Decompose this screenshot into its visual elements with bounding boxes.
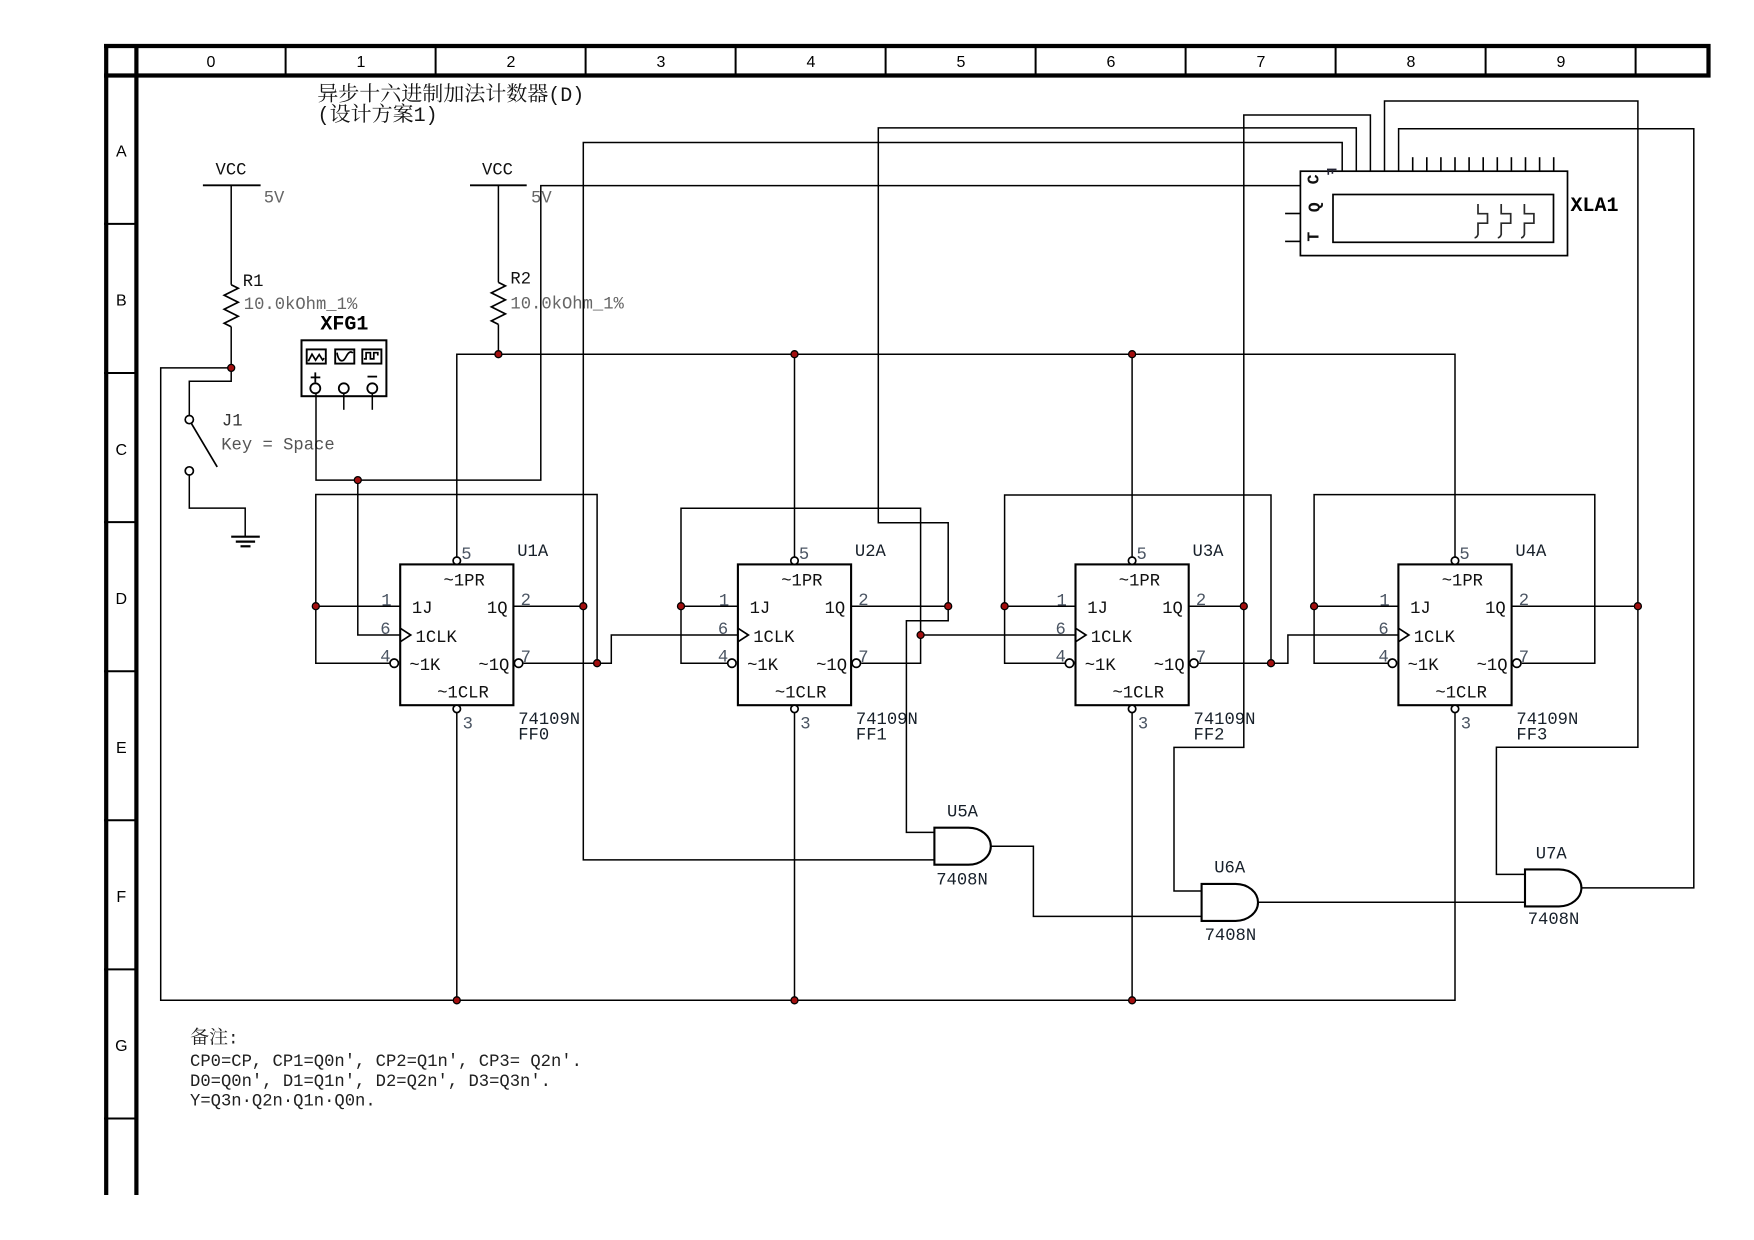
- U4A pin 4 label: [1378, 649, 1388, 668]
- svg-text:A: A: [116, 144, 127, 161]
- title text: [318, 83, 585, 128]
- wire Y output U7A to XLA1: [1399, 129, 1694, 888]
- junction Q3: [1634, 603, 1641, 610]
- svg-text:~1CLR: ~1CLR: [775, 685, 827, 704]
- svg-text:C: C: [1305, 174, 1324, 184]
- U2A part label 74109N: [856, 711, 918, 730]
- svg-text:D0=Q0n', D1=Q1n', D2=Q2n', D3=: D0=Q0n', D1=Q1n', D2=Q2n', D3=Q3n'.: [190, 1073, 551, 1092]
- svg-text:~1CLR: ~1CLR: [1435, 685, 1487, 704]
- svg-text:~1Q: ~1Q: [1477, 657, 1508, 676]
- svg-text:5: 5: [799, 546, 809, 565]
- U1A part label 74109N: [518, 711, 580, 730]
- U3A pin 2 label: [1196, 592, 1206, 611]
- resistor R2: [491, 271, 531, 355]
- U3A pin 1 label: [1057, 592, 1067, 611]
- and-gate U6A 7408N: [1202, 884, 1258, 921]
- junction CLR rail at U2A: [791, 997, 798, 1004]
- svg-text:~1PR: ~1PR: [781, 573, 822, 592]
- svg-text:10.0kOhm_1%: 10.0kOhm_1%: [510, 296, 624, 315]
- J1 key label: [221, 436, 334, 455]
- svg-text:9: 9: [1557, 54, 1566, 71]
- svg-text:5: 5: [1459, 546, 1469, 565]
- svg-text:3: 3: [1461, 716, 1471, 735]
- wire Q3n net U4A feedback: [1314, 495, 1595, 664]
- svg-text:FF1: FF1: [856, 727, 887, 746]
- svg-text:1CLK: 1CLK: [416, 629, 458, 648]
- svg-text:1): 1): [414, 105, 438, 128]
- svg-text:~1PR: ~1PR: [1119, 573, 1160, 592]
- svg-text:U3A: U3A: [1193, 543, 1225, 562]
- svg-text:7408N: 7408N: [936, 872, 988, 891]
- svg-text:B: B: [116, 293, 127, 310]
- svg-text:2: 2: [507, 54, 516, 71]
- wire U5A output to U6A: [991, 846, 1202, 916]
- svg-text:FF0: FF0: [518, 727, 549, 746]
- svg-text:3: 3: [800, 716, 810, 735]
- svg-text:U7A: U7A: [1536, 845, 1568, 864]
- svg-text:~1K: ~1K: [409, 657, 441, 676]
- U1A pin 2 label: [521, 592, 531, 611]
- ground: [231, 537, 260, 547]
- svg-text:~1K: ~1K: [1085, 657, 1117, 676]
- U4A pin 1 label: [1379, 592, 1389, 611]
- svg-text:7: 7: [1257, 54, 1266, 71]
- U1A pin 3 label: [463, 716, 473, 735]
- U4A pin 2 label: [1519, 592, 1529, 611]
- VCC2 value 5V: [531, 190, 552, 209]
- U4A ref label: [1515, 543, 1547, 562]
- U2A instance label FF1: [856, 727, 887, 746]
- U5A part label 7408N: [936, 872, 988, 891]
- svg-text:1Q: 1Q: [825, 600, 846, 619]
- junction Q2: [1240, 603, 1247, 610]
- U6A part label 7408N: [1205, 927, 1257, 946]
- svg-text:2: 2: [858, 592, 868, 611]
- svg-text:~1K: ~1K: [1408, 657, 1440, 676]
- svg-text:1: 1: [381, 592, 391, 611]
- svg-text:2: 2: [1519, 592, 1529, 611]
- U6A ref label: [1214, 859, 1246, 878]
- svg-text:VCC: VCC: [482, 162, 513, 181]
- svg-text:~1CLR: ~1CLR: [1113, 685, 1165, 704]
- power VCC2: [470, 162, 527, 283]
- svg-text:5: 5: [1137, 546, 1147, 565]
- wire Q1n net U2A feedback: [681, 508, 1076, 663]
- U4A pin 3 label: [1461, 716, 1471, 735]
- svg-text:10.0kOhm_1%: 10.0kOhm_1%: [244, 296, 358, 315]
- svg-text:U4A: U4A: [1515, 543, 1547, 562]
- junction CLR at R1: [228, 364, 235, 371]
- U4A pin 5 label: [1459, 546, 1469, 565]
- svg-text:4: 4: [718, 649, 728, 668]
- svg-text:3: 3: [463, 716, 473, 735]
- svg-text:7: 7: [521, 649, 531, 668]
- power VCC1: [203, 162, 261, 285]
- notes text: [190, 1028, 582, 1112]
- svg-text:1J: 1J: [1410, 600, 1431, 619]
- svg-text:2: 2: [1196, 592, 1206, 611]
- svg-text:7: 7: [858, 649, 868, 668]
- junction Q0n at U1A feedback: [594, 660, 601, 667]
- U1A ref label: [517, 543, 549, 562]
- wire CP clock net from XFG1: [316, 186, 1300, 635]
- svg-text:(D): (D): [548, 85, 584, 108]
- svg-text:7408N: 7408N: [1205, 927, 1257, 946]
- U4A pin 7 label: [1519, 649, 1529, 668]
- U2A pin 4 label: [718, 649, 728, 668]
- svg-text:5V: 5V: [531, 190, 552, 209]
- U4A part label 74109N: [1516, 711, 1578, 730]
- svg-text:~1K: ~1K: [747, 657, 779, 676]
- U4A pin 6 label: [1378, 621, 1388, 640]
- U2A pin 2 label: [858, 592, 868, 611]
- and-gate U5A 7408N: [934, 828, 990, 865]
- svg-text:~1PR: ~1PR: [1442, 573, 1483, 592]
- svg-text:D: D: [116, 591, 128, 608]
- wire PR preset rail: [457, 354, 1455, 557]
- svg-text:CP0=CP, CP1=Q0n', CP2=Q1n', CP: CP0=CP, CP1=Q0n', CP2=Q1n', CP3= Q2n'.: [190, 1053, 582, 1072]
- svg-text:G: G: [115, 1038, 127, 1055]
- svg-text:(: (: [318, 105, 330, 128]
- svg-text:7: 7: [1519, 649, 1529, 668]
- VCC1 value 5V: [264, 190, 285, 209]
- svg-text:3: 3: [1138, 716, 1148, 735]
- wire switch to ground: [189, 475, 245, 537]
- U7A ref label: [1536, 845, 1568, 864]
- svg-text:VCC: VCC: [216, 162, 247, 181]
- svg-text:~1Q: ~1Q: [816, 657, 847, 676]
- junction PR rail at U2A: [791, 351, 798, 358]
- svg-text:1: 1: [357, 54, 366, 71]
- svg-text:7: 7: [1196, 649, 1206, 668]
- svg-text:1Q: 1Q: [1485, 600, 1506, 619]
- J1 ref label: [222, 413, 243, 432]
- junction PR rail at R2: [495, 351, 502, 358]
- junction CLR rail at U3A: [1129, 997, 1136, 1004]
- junction Q2n at U3A feedback: [1268, 660, 1275, 667]
- svg-text:6: 6: [380, 621, 390, 640]
- svg-text:Q: Q: [1306, 202, 1325, 212]
- wire Q0n net U1A feedback: [316, 495, 738, 664]
- svg-text:R1: R1: [243, 273, 264, 292]
- svg-text:~1Q: ~1Q: [1154, 657, 1185, 676]
- U3A pin 5 label: [1137, 546, 1147, 565]
- svg-text:2: 2: [521, 592, 531, 611]
- svg-text:~1CLR: ~1CLR: [437, 685, 489, 704]
- svg-text:1Q: 1Q: [487, 600, 508, 619]
- U7A part label 7408N: [1528, 911, 1580, 930]
- svg-text:U2A: U2A: [855, 543, 887, 562]
- junction Q1n clock tap to U3A: [917, 632, 924, 639]
- U3A pin 3 label: [1138, 716, 1148, 735]
- svg-text::: :: [228, 1031, 238, 1050]
- U5A ref label: [947, 804, 979, 823]
- svg-text:~1PR: ~1PR: [444, 573, 485, 592]
- svg-text:1J: 1J: [750, 600, 771, 619]
- svg-text:3: 3: [657, 54, 666, 71]
- jk flip-flop U2A 74109N: [728, 557, 861, 713]
- svg-text:~1Q: ~1Q: [478, 657, 509, 676]
- jk flip-flop U4A 74109N: [1388, 557, 1521, 713]
- svg-text:F: F: [116, 889, 126, 906]
- svg-text:4: 4: [1378, 649, 1388, 668]
- U1A pin 1 label: [381, 592, 391, 611]
- U2A ref label: [855, 543, 887, 562]
- svg-text:U1A: U1A: [517, 543, 549, 562]
- svg-text:4: 4: [380, 649, 390, 668]
- U3A pin 4 label: [1056, 649, 1066, 668]
- junction CP at CLK branch: [354, 477, 361, 484]
- U2A pin 3 label: [800, 716, 810, 735]
- wire Q1 net: [851, 128, 1356, 833]
- svg-text:1CLK: 1CLK: [1091, 629, 1133, 648]
- U3A pin 7 label: [1196, 649, 1206, 668]
- svg-text:Key = Space: Key = Space: [221, 436, 334, 455]
- wire Q2 net: [1174, 115, 1370, 891]
- svg-text:4: 4: [1056, 649, 1066, 668]
- junction Q0: [580, 603, 587, 610]
- svg-text:C: C: [116, 442, 128, 459]
- svg-text:1: 1: [719, 592, 729, 611]
- junction Q1: [945, 603, 952, 610]
- jk flip-flop U3A 74109N: [1065, 557, 1198, 713]
- function generator XFG1: [302, 340, 387, 410]
- svg-text:U5A: U5A: [947, 804, 979, 823]
- U3A ref label: [1193, 543, 1225, 562]
- svg-text:1CLK: 1CLK: [753, 629, 795, 648]
- svg-text:FF2: FF2: [1194, 727, 1225, 746]
- wire U6A output to U7A: [1258, 901, 1525, 903]
- svg-text:6: 6: [1107, 54, 1116, 71]
- svg-text:R2: R2: [510, 271, 531, 290]
- U1A pin 4 label: [380, 649, 390, 668]
- svg-text:U6A: U6A: [1214, 859, 1246, 878]
- U1A pin 5 label: [461, 546, 471, 565]
- wire CLR clear rail: [161, 368, 1455, 1000]
- svg-text:Y=Q3n·Q2n·Q1n·Q0n.: Y=Q3n·Q2n·Q1n·Q0n.: [190, 1093, 376, 1112]
- svg-text:T: T: [1305, 232, 1324, 242]
- svg-text:6: 6: [718, 621, 728, 640]
- svg-text:XLA1: XLA1: [1571, 195, 1619, 218]
- wire Q2n net U3A feedback: [1005, 495, 1399, 663]
- svg-text:8: 8: [1407, 54, 1416, 71]
- U3A instance label FF2: [1194, 727, 1225, 746]
- svg-text:1: 1: [1057, 592, 1067, 611]
- svg-text:4: 4: [807, 54, 816, 71]
- junction Q3n at U4A J input: [1311, 603, 1318, 610]
- svg-text:5: 5: [461, 546, 471, 565]
- XFG1 ref label: [320, 314, 368, 337]
- svg-text:6: 6: [1378, 621, 1388, 640]
- resistor R1: [224, 273, 263, 368]
- and-gate U7A 7408N: [1525, 869, 1581, 906]
- U2A pin 6 label: [718, 621, 728, 640]
- R1 value label: [244, 296, 358, 315]
- svg-text:5V: 5V: [264, 190, 285, 209]
- wire Q0 net: [513, 143, 1342, 860]
- switch J1: [185, 416, 217, 476]
- U1A instance label FF0: [518, 727, 549, 746]
- wire Q3 net: [1385, 101, 1638, 874]
- svg-text:1Q: 1Q: [1162, 600, 1183, 619]
- U1A pin 7 label: [521, 649, 531, 668]
- U2A pin 5 label: [799, 546, 809, 565]
- logic analyzer XLA1: [1285, 157, 1567, 255]
- junction Q0n at U1A J input: [312, 603, 319, 610]
- svg-text:7408N: 7408N: [1528, 911, 1580, 930]
- U2A pin 1 label: [719, 592, 729, 611]
- junction Q2n at U3A J input: [1001, 603, 1008, 610]
- U4A instance label FF3: [1516, 727, 1547, 746]
- svg-text:1: 1: [1379, 592, 1389, 611]
- svg-text:0: 0: [207, 54, 216, 71]
- jk flip-flop U1A 74109N: [390, 557, 523, 713]
- svg-text:5: 5: [957, 54, 966, 71]
- svg-text:E: E: [116, 740, 127, 757]
- svg-text:J1: J1: [222, 413, 243, 432]
- svg-text:FF3: FF3: [1516, 727, 1547, 746]
- svg-text:1J: 1J: [1087, 600, 1108, 619]
- svg-text:1CLK: 1CLK: [1414, 629, 1456, 648]
- junction Q1n at U2A J input: [678, 603, 685, 610]
- R2 value label: [510, 296, 624, 315]
- svg-text:1J: 1J: [412, 600, 433, 619]
- U2A pin 7 label: [858, 649, 868, 668]
- U1A pin 6 label: [380, 621, 390, 640]
- U3A part label 74109N: [1194, 711, 1256, 730]
- XLA1 ref label: [1571, 195, 1619, 218]
- junction PR rail at U3A: [1129, 351, 1136, 358]
- junction CLR rail at U1A: [453, 997, 460, 1004]
- svg-text:XFG1: XFG1: [320, 314, 368, 337]
- U3A pin 6 label: [1056, 621, 1066, 640]
- svg-text:6: 6: [1056, 621, 1066, 640]
